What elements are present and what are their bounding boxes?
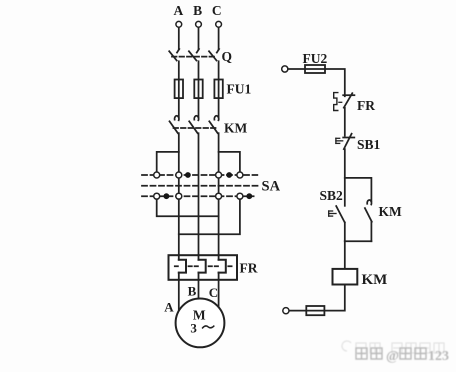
bottom fuse bbox=[306, 306, 324, 315]
FR heater 3 bbox=[219, 255, 226, 280]
contactor KM main contact 3 bbox=[209, 116, 218, 133]
wire Q to KM pole 2 bbox=[198, 61, 200, 117]
SB2 NO pushbutton bbox=[336, 206, 345, 222]
wire FR to SB1 bbox=[344, 108, 346, 136]
label SB1 bbox=[357, 137, 381, 152]
label motor C bbox=[209, 285, 218, 300]
terminal A bbox=[176, 21, 182, 27]
svg-text:B: B bbox=[188, 284, 197, 299]
wire coil to bottom rail bbox=[289, 285, 345, 311]
label ~ bbox=[203, 326, 214, 328]
SA closed contact dots row 1 bbox=[185, 172, 232, 178]
svg-text:SB1: SB1 bbox=[357, 137, 381, 152]
svg-text:A: A bbox=[174, 3, 184, 18]
label motor A bbox=[164, 299, 174, 314]
contactor KM main contact 1 bbox=[170, 116, 179, 133]
svg-text:A: A bbox=[164, 299, 174, 314]
svg-text:C: C bbox=[209, 285, 218, 300]
wire phase C to Q bbox=[218, 27, 220, 49]
wire SB2 down bbox=[344, 222, 346, 241]
label FR bbox=[240, 261, 258, 276]
wire SA output 1 to FR bbox=[178, 199, 180, 260]
motor M bbox=[176, 299, 225, 348]
label 3~ bbox=[190, 321, 197, 336]
svg-text:KM: KM bbox=[224, 121, 248, 136]
terminal C bbox=[216, 21, 222, 27]
fuse FU1 pole 1 bbox=[175, 80, 183, 99]
fuse FU1 pole 3 bbox=[214, 80, 222, 99]
svg-text:FR: FR bbox=[357, 98, 375, 113]
svg-text:KM: KM bbox=[362, 272, 388, 288]
control terminal top bbox=[282, 66, 288, 72]
svg-text:FR: FR bbox=[240, 261, 258, 276]
svg-text:@: @ bbox=[386, 349, 399, 364]
label motor B bbox=[188, 284, 197, 299]
wire KM3 to SA bbox=[218, 133, 220, 172]
FR heater 2 bbox=[199, 255, 206, 280]
node A label bbox=[174, 3, 184, 18]
switch SA linkage row 3 (dashed) bbox=[142, 195, 254, 197]
control terminal bottom bbox=[283, 308, 289, 314]
wire SA top-right bracket bbox=[219, 152, 240, 172]
svg-text:FU2: FU2 bbox=[303, 51, 328, 66]
wire SA out left-down bbox=[157, 199, 219, 216]
FR NC contact actuator bbox=[334, 93, 342, 111]
wire branch bottom bbox=[345, 240, 372, 242]
svg-text:SB2: SB2 bbox=[320, 188, 344, 203]
wire KM2 through SA to FR bbox=[198, 133, 200, 260]
wire phase B to Q bbox=[198, 27, 200, 49]
wire FR to motor phase B bbox=[198, 280, 200, 299]
label FU2 bbox=[303, 51, 328, 66]
wire Q to KM pole 1 bbox=[178, 61, 180, 117]
label Q bbox=[222, 49, 233, 64]
label FR control bbox=[357, 98, 375, 113]
wire Q to KM pole 3 bbox=[218, 61, 220, 117]
switch SA linkage row 2 (dashed) bbox=[142, 185, 258, 187]
wire FR to motor phase C bbox=[218, 280, 220, 307]
wire KM aux down bbox=[370, 222, 372, 242]
svg-text:FU1: FU1 bbox=[227, 82, 252, 97]
label SB2 bbox=[320, 188, 344, 203]
wire KM1 to SA bbox=[178, 133, 180, 172]
wire terminal to FU2 and corner bbox=[288, 69, 345, 96]
node B label bbox=[193, 3, 202, 18]
wire FR to motor phase A bbox=[178, 280, 180, 312]
SB1 actuator bbox=[336, 138, 343, 143]
FR NC contact bbox=[343, 93, 354, 108]
svg-text:123: 123 bbox=[428, 349, 449, 364]
thermal relay FR box bbox=[169, 255, 238, 280]
switch Q linkage (dashed) bbox=[172, 56, 216, 58]
label KM coil bbox=[362, 272, 388, 288]
switch Q pole 3 bbox=[209, 49, 219, 61]
wire branch to coil bbox=[344, 241, 346, 269]
svg-text:B: B bbox=[193, 3, 202, 18]
FR linkage (dashed) bbox=[175, 265, 232, 267]
label SA bbox=[262, 179, 281, 195]
SB1 NC pushbutton bbox=[343, 134, 354, 149]
wire SA column link 2 bbox=[218, 175, 220, 196]
node C label bbox=[212, 3, 222, 18]
wire SA output 3 to FR bbox=[218, 199, 220, 260]
svg-text:3: 3 bbox=[190, 321, 197, 336]
wire SB1 to branch bbox=[344, 149, 346, 206]
fuse FU2 bbox=[305, 65, 325, 73]
wire SA top-left bracket bbox=[157, 152, 179, 172]
wire SA crossover bbox=[179, 199, 240, 234]
SA closed contact dots row 2 bbox=[164, 193, 253, 199]
svg-text:KM: KM bbox=[379, 204, 403, 219]
FR heater 1 bbox=[179, 255, 186, 280]
coil KM bbox=[333, 269, 358, 285]
label FU1 bbox=[227, 82, 252, 97]
svg-text:SA: SA bbox=[262, 179, 281, 195]
label KM bbox=[224, 121, 248, 136]
contactor KM main contact 2 bbox=[189, 116, 198, 133]
main watermark text row bbox=[356, 348, 426, 359]
contactor KM linkage (dashed) bbox=[174, 127, 216, 129]
wire branch top bbox=[345, 178, 372, 201]
wire phase A to Q bbox=[178, 27, 180, 49]
terminal B bbox=[196, 21, 202, 27]
SA contact terminals row 1 bbox=[154, 172, 243, 178]
SA contact terminals row 2 bbox=[154, 193, 243, 199]
switch Q pole 1 bbox=[169, 49, 179, 61]
svg-text:Q: Q bbox=[222, 49, 233, 64]
switch Q pole 2 bbox=[189, 49, 199, 61]
KM auxiliary contact bbox=[365, 200, 372, 222]
watermark bbox=[342, 341, 449, 364]
ghost watermark text row bbox=[342, 341, 444, 353]
label KM aux bbox=[379, 204, 403, 219]
wire SA column link 1 bbox=[178, 175, 180, 196]
fuse FU1 pole 2 bbox=[194, 80, 202, 99]
label M bbox=[193, 308, 206, 323]
svg-text:C: C bbox=[212, 3, 222, 18]
SB2 actuator bbox=[329, 211, 336, 216]
switch SA linkage row 1 (dashed) bbox=[142, 174, 257, 176]
